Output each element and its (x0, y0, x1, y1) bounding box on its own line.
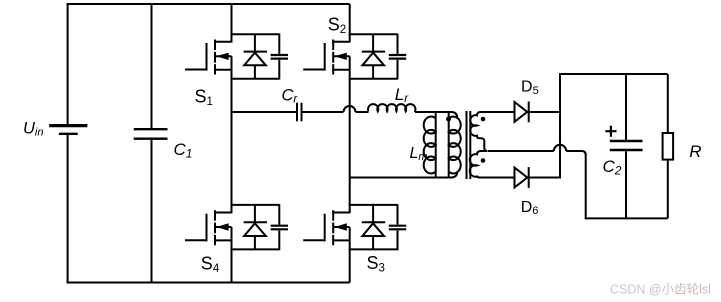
wire S4 source to bottom rail (231, 249, 233, 282)
capacitor C2 top plate (610, 140, 643, 143)
inductor Lm (magnetizing) (435, 112, 437, 178)
battery Uin long plate (49, 124, 87, 127)
wire hop to output bottom leg (566, 151, 586, 155)
MOSFET S3 with body diode and snubber cap (303, 204, 406, 250)
wire Lr to transformer primary (415, 111, 447, 113)
resistor R top lead (667, 74, 669, 133)
wire S1 drain to top rail (231, 4, 233, 34)
svg-text:D6: D6 (521, 199, 539, 217)
diode D6 cathode bar (528, 167, 530, 188)
resistor R bottom lead (667, 160, 669, 219)
wire output bottom leg down (585, 154, 587, 218)
diode D6 triangle (515, 168, 528, 188)
wire cathode node vertical (559, 73, 561, 178)
MOSFET S2 with body diode and snubber cap (303, 34, 406, 80)
resistor R body (663, 133, 674, 160)
svg-text:S3: S3 (367, 253, 385, 275)
wire hop over cathode line (554, 145, 566, 151)
svg-text:Cr: Cr (282, 87, 299, 106)
wire leg A: S1 source to S4 drain (node A) (231, 79, 233, 205)
svg-text:S2: S2 (328, 15, 346, 37)
capacitor C2 bottom lead (625, 151, 627, 218)
wire output top rail (559, 73, 668, 75)
capacitor C1 bottom plate (134, 137, 168, 139)
wire hop over leg B (344, 106, 356, 112)
wire bottom rail (67, 282, 350, 284)
wire top rail (67, 3, 350, 5)
capacitor C1 top plate (134, 128, 168, 130)
svg-text:S1: S1 (195, 86, 213, 108)
svg-text:C2: C2 (603, 157, 622, 178)
transformer secondary upper winding (470, 112, 515, 151)
plus sign of C2 (605, 126, 616, 137)
capacitor Cr right plate (301, 103, 303, 122)
battery Uin bottom lead (67, 135, 69, 283)
wire node A to Cr (232, 111, 297, 113)
wire D6 to cathode node (530, 177, 561, 179)
transformer core line right (469, 111, 471, 179)
svg-text:C1: C1 (174, 140, 193, 161)
secondary lower polarity dot (481, 158, 486, 163)
svg-text:CSDN @小齿轮lsl: CSDN @小齿轮lsl (610, 283, 711, 297)
wire primary bottom to node B (350, 177, 450, 179)
wire leg B: S2 source to S3 drain (node B) (349, 79, 351, 205)
transformer primary winding (448, 112, 450, 178)
wire S3 source to bottom rail (349, 249, 351, 282)
capacitor C2 bottom plate (610, 149, 643, 152)
transformer core line left (466, 111, 468, 179)
svg-text:S4: S4 (201, 254, 220, 276)
secondary upper polarity dot (481, 117, 486, 122)
capacitor Cr left plate (296, 103, 298, 122)
capacitor C1 top lead (151, 3, 153, 129)
diode D5 triangle (515, 102, 528, 122)
wire Cr to hop (303, 111, 344, 113)
MOSFET S4 with body diode and snubber cap (185, 204, 288, 250)
inductor Lr (368, 104, 415, 112)
battery Uin top lead (67, 3, 69, 124)
MOSFET S1 with body diode and snubber cap (185, 34, 288, 80)
wire S2 drain to top rail (349, 4, 351, 34)
svg-text:Uin: Uin (23, 119, 43, 138)
svg-text:D5: D5 (521, 79, 539, 97)
primary polarity dot (446, 117, 451, 122)
capacitor C1 bottom lead (151, 140, 153, 283)
svg-text:Lr: Lr (395, 85, 409, 105)
transformer secondary lower winding (470, 151, 515, 178)
diode D5 cathode bar (528, 102, 530, 123)
capacitor C2 top lead (625, 74, 627, 140)
wire D5 to cathode node (530, 111, 561, 113)
wire output bottom rail (585, 217, 668, 219)
svg-text:R: R (689, 142, 701, 161)
wire hop to Lr (356, 111, 369, 113)
wire center tap to hop (488, 150, 554, 152)
battery Uin short plate (59, 133, 78, 135)
